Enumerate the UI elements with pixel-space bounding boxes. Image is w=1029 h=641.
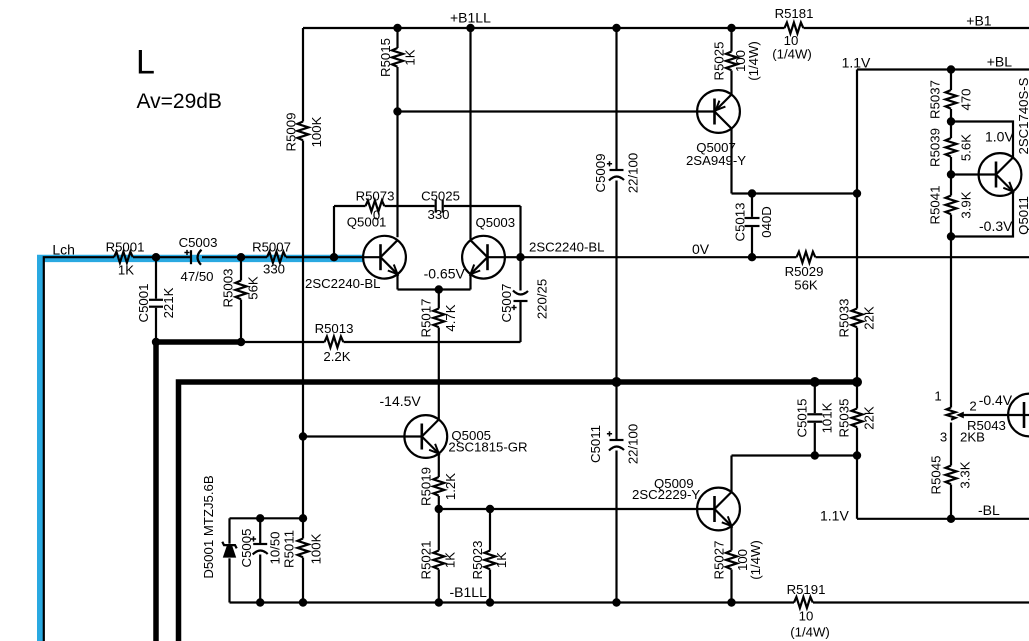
svg-text:+B1LL: +B1LL [450, 10, 491, 26]
wire compensation line [334, 206, 521, 257]
svg-text:2KB: 2KB [960, 430, 985, 445]
node junction R5037/R5039 [947, 117, 955, 125]
node junction R5011/-B1LL [299, 598, 307, 606]
wire 0V line [521, 256, 1029, 258]
svg-text:2SC1815-GR: 2SC1815-GR [448, 440, 527, 455]
node junction R5003/feedback [237, 338, 245, 346]
svg-text:R5001: R5001 [106, 240, 145, 255]
node Lch input label [52, 242, 75, 258]
node junction R5027/-B1LL [727, 598, 735, 606]
svg-text:C5015: C5015 [795, 399, 810, 438]
transistor Q5009 [632, 476, 740, 530]
node junction C5009 line/top rail [612, 24, 620, 32]
svg-text:-BL: -BL [978, 502, 1000, 518]
svg-text:R5045: R5045 [929, 456, 944, 495]
capacitor C5013 [733, 194, 775, 258]
svg-text:R5191: R5191 [787, 582, 826, 597]
svg-text:3: 3 [940, 430, 947, 445]
node junction R5003/input [237, 253, 245, 261]
node junction thick bus/R5033 [852, 377, 862, 387]
svg-text:C5005: C5005 [239, 529, 254, 568]
node junction R5039/R5041 base [947, 170, 955, 178]
transistor Q5007 [686, 90, 746, 168]
node -0.4V label [979, 392, 1013, 408]
resistor R5025 [712, 28, 762, 95]
svg-text:1.2K: 1.2K [443, 473, 458, 500]
resistor R5035 [837, 399, 877, 519]
svg-text:-0.65V: -0.65V [424, 266, 466, 282]
svg-text:56K: 56K [246, 276, 261, 300]
node junction Q5003 collector/top rail [466, 24, 474, 32]
svg-text:56K: 56K [794, 278, 818, 293]
svg-text:(1/4W): (1/4W) [746, 41, 761, 81]
svg-text:2SA949-Y: 2SA949-Y [686, 153, 746, 168]
svg-text:Av=29dB: Av=29dB [137, 90, 222, 113]
svg-text:330: 330 [263, 262, 285, 277]
transistor Q5013 partial at right edge [1008, 394, 1029, 437]
svg-text:C5001: C5001 [136, 284, 151, 323]
node junction R5035/collector line [853, 451, 861, 459]
node junction R5041/emitter box [947, 232, 955, 240]
resistor R5181 [772, 6, 813, 62]
wire Q5009 base line [439, 508, 715, 510]
transistor Q5001 [305, 215, 406, 291]
node junction R5019/Q5009 base line [435, 505, 443, 513]
capacitor C5015 [795, 382, 835, 456]
resistor R5015 [378, 28, 418, 237]
resistor R5019 [419, 454, 459, 510]
svg-text:(1/4W): (1/4W) [748, 540, 763, 580]
node L channel title [136, 44, 222, 114]
wire Q5011 emitter box [951, 192, 1013, 237]
wire Q5011 base [951, 173, 996, 175]
svg-text:220/25: 220/25 [535, 279, 550, 319]
node +BL label [987, 54, 1013, 70]
resistor R5041 [928, 186, 974, 408]
svg-text:1: 1 [934, 388, 941, 403]
svg-text:1K: 1K [403, 49, 418, 65]
svg-text:4.7K: 4.7K [443, 304, 458, 331]
node junction R5045/-BL [947, 515, 955, 523]
wire Q5003 base [488, 256, 521, 258]
resistor R5009 [284, 28, 325, 518]
wire Q5011 collector box [951, 122, 1014, 158]
resistor R5003 [221, 257, 261, 342]
resistor R5029 [785, 252, 824, 293]
svg-text:10: 10 [799, 609, 814, 624]
svg-text:1.0V: 1.0V [985, 129, 1014, 145]
svg-text:1.1V: 1.1V [842, 55, 871, 71]
svg-text:R5017: R5017 [419, 299, 434, 338]
svg-text:C5013: C5013 [733, 203, 748, 242]
svg-text:(1/4W): (1/4W) [790, 625, 830, 640]
svg-text:22/100: 22/100 [626, 153, 641, 193]
svg-text:R5003: R5003 [221, 269, 236, 308]
node junction Q5001 base [330, 253, 338, 261]
node junction group top/C5005 [256, 514, 264, 522]
svg-text:C5003: C5003 [179, 235, 218, 250]
wire Lch input highlight (cyan) [41, 258, 363, 641]
svg-text:R5041: R5041 [928, 186, 943, 225]
wire +BL rail [857, 68, 1029, 70]
svg-text:R5037: R5037 [928, 80, 943, 119]
svg-text:330: 330 [427, 207, 449, 222]
svg-text:5.6K: 5.6K [959, 134, 974, 161]
node junction Q5003 base/0V [516, 253, 524, 261]
node junction R5023/base line [486, 505, 494, 513]
wire diff emitters [398, 274, 471, 289]
capacitor C5005 [239, 518, 283, 602]
svg-text:2SC2229-Y: 2SC2229-Y [632, 487, 700, 502]
svg-text:-B1LL: -B1LL [450, 584, 488, 600]
node junction C5015/thick bus [810, 377, 820, 387]
svg-text:3.3K: 3.3K [958, 461, 973, 488]
svg-text:+B1: +B1 [966, 13, 992, 29]
svg-text:2SC2240-BL: 2SC2240-BL [305, 276, 381, 291]
node -14.5V label [380, 393, 422, 409]
svg-text:10/50: 10/50 [268, 531, 283, 564]
capacitor C5001 [136, 257, 176, 342]
node 1.1V lower label [820, 508, 849, 524]
svg-text:C5011: C5011 [588, 425, 603, 463]
svg-text:1.1V: 1.1V [820, 508, 849, 524]
resistor R5013 [241, 321, 521, 364]
wire +B1LL rail [303, 27, 785, 29]
node junction C5001/input [152, 253, 160, 261]
node junction C5011 line/-B1LL [612, 598, 620, 606]
wire thick output bus vertical 1 [153, 342, 159, 641]
svg-text:(1/4W): (1/4W) [772, 47, 812, 62]
svg-text:R5027: R5027 [712, 541, 727, 580]
svg-text:22K: 22K [862, 406, 877, 430]
node junction R5015/base drive [393, 107, 401, 115]
svg-text:22K: 22K [862, 306, 877, 330]
svg-text:221K: 221K [161, 287, 176, 318]
svg-text:1K: 1K [494, 552, 509, 568]
svg-text:C5009: C5009 [593, 154, 608, 193]
svg-text:R5013: R5013 [315, 321, 354, 336]
svg-text:R5025: R5025 [712, 42, 727, 81]
wire Q5003 collector [469, 28, 471, 240]
svg-text:R5039: R5039 [928, 128, 943, 167]
node 1.1V upper label [842, 55, 871, 71]
resistor R5191 [787, 582, 830, 640]
svg-text:Lch: Lch [52, 242, 75, 258]
svg-text:Q5001: Q5001 [347, 215, 387, 230]
svg-text:101K: 101K [820, 402, 835, 433]
wire thick output bus L2 [179, 382, 858, 641]
svg-text:R5019: R5019 [419, 467, 434, 506]
node -B1LL label [450, 584, 488, 600]
node junction collector/x857 [853, 189, 861, 197]
wire Q5007 collector [732, 129, 858, 194]
svg-text:100K: 100K [309, 116, 324, 147]
node 0V label [692, 241, 710, 257]
svg-text:47/50: 47/50 [180, 269, 213, 284]
capacitor C5025 [421, 189, 460, 223]
resistor R5023 [470, 509, 509, 603]
node junction R5025/top rail [727, 24, 735, 32]
transistor Q5011 [979, 77, 1029, 234]
diode D5001 zener [201, 475, 237, 602]
svg-text:D5001 MTZJ5.6B: D5001 MTZJ5.6B [201, 475, 216, 579]
svg-text:R5023: R5023 [470, 541, 485, 580]
resistor R5021 [419, 509, 458, 603]
node junction C5013/0V [748, 253, 756, 261]
node junction R5021/-B1LL [435, 598, 443, 606]
svg-text:2SC1740S-S: 2SC1740S-S [1016, 77, 1029, 154]
svg-text:R5021: R5021 [419, 541, 434, 580]
wire Q5009 collector to R5035 [732, 456, 858, 493]
wire -BL rail [857, 518, 1029, 520]
svg-text:R5073: R5073 [356, 189, 395, 204]
svg-text:R5011: R5011 [282, 530, 297, 568]
resistor R5045 [929, 423, 973, 519]
svg-text:1K: 1K [443, 552, 458, 568]
wire zener group top rail [230, 517, 304, 519]
svg-text:2SC2240-BL: 2SC2240-BL [529, 240, 605, 255]
svg-text:C5025: C5025 [421, 189, 460, 204]
svg-text:-14.5V: -14.5V [380, 393, 422, 409]
svg-text:R5181: R5181 [775, 6, 814, 21]
resistor R5007 [252, 240, 291, 277]
svg-text:+BL: +BL [987, 54, 1013, 70]
node junction R5023/-B1LL [486, 598, 494, 606]
svg-text:040D: 040D [759, 206, 774, 238]
svg-text:22/100: 22/100 [626, 424, 641, 464]
capacitor C5009 [593, 28, 641, 382]
node junction C5001/feedback [152, 338, 160, 346]
node +B1LL label [450, 10, 491, 26]
resistor R5011 [282, 518, 324, 602]
transistor Q5005 [404, 415, 527, 458]
svg-text:470: 470 [959, 88, 974, 110]
capacitor C5007 [499, 257, 550, 342]
svg-text:-0.4V: -0.4V [979, 392, 1013, 408]
transistor Q5003 [462, 215, 604, 279]
capacitor C5003 [179, 235, 218, 284]
node junction R5015/top rail [393, 24, 401, 32]
wire Q5005 base [303, 435, 422, 437]
svg-text:Q5003: Q5003 [476, 215, 516, 230]
svg-text:R5009: R5009 [284, 113, 299, 152]
node junction bootstrap/thick bus [612, 377, 622, 387]
wire -B1LL rail [230, 601, 1029, 603]
svg-text:R5007: R5007 [252, 240, 291, 255]
wire Lch input line [44, 257, 380, 641]
svg-text:2.2K: 2.2K [323, 349, 350, 364]
resistor R5017 [419, 290, 459, 420]
resistor R5043 potentiometer [934, 388, 1024, 444]
resistor R5027 [712, 526, 764, 603]
svg-text:-0.3V: -0.3V [979, 218, 1013, 234]
resistor R5037 [928, 70, 974, 139]
svg-text:R5035: R5035 [837, 399, 852, 438]
resistor R5001 [106, 240, 145, 278]
wire +B1 rail [804, 27, 1029, 29]
svg-text:L: L [136, 44, 155, 82]
node junction group top/R5011 [299, 514, 307, 522]
node junction R5037/+BL [947, 65, 955, 73]
resistor R5073 [356, 189, 395, 223]
node junction C5005/-B1LL [256, 598, 264, 606]
node junction emitters/R5017 [424, 266, 466, 294]
node junction C5013/collector [748, 189, 756, 197]
svg-text:0V: 0V [692, 241, 710, 257]
resistor R5033 [837, 70, 877, 409]
node +B1 label [966, 13, 992, 29]
svg-text:2: 2 [969, 399, 976, 414]
node junction Q5005 base/zener line [299, 432, 307, 440]
svg-text:R5015: R5015 [378, 38, 393, 77]
svg-text:R5033: R5033 [837, 299, 852, 338]
svg-text:3.9K: 3.9K [959, 191, 974, 218]
node junction C5015/collector line [811, 451, 819, 459]
svg-text:C5007: C5007 [499, 284, 514, 323]
svg-text:1K: 1K [118, 263, 134, 278]
node -BL label [978, 502, 1000, 518]
resistor R5039 [928, 128, 974, 195]
wire feedback bus thick segment [156, 339, 241, 345]
capacitor C5011 [588, 382, 641, 603]
wire base drive to Q5007 [398, 110, 715, 112]
svg-text:100K: 100K [309, 533, 324, 564]
svg-text:Q5011: Q5011 [1016, 196, 1029, 235]
